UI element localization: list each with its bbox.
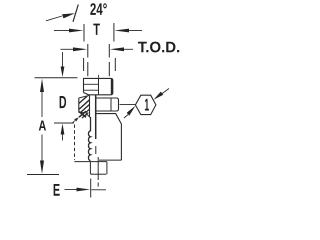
bore line hex left edge <box>95 95 97 139</box>
stem left edge <box>90 162 91 175</box>
dim E line right continuation <box>92 189 107 191</box>
label 24 deg <box>90 3 107 15</box>
dim E arrow <box>65 189 78 191</box>
balloon diagonal leader lower left <box>124 115 128 118</box>
dim D upper arrow line <box>62 52 64 67</box>
serrated sleeve edge with bumps <box>88 117 90 161</box>
centerline through stem <box>97 157 99 180</box>
dim T right extension line <box>113 23 115 42</box>
sleeve bottom edge <box>74 161 107 163</box>
dim T left extension dash lower <box>83 58 85 71</box>
bell nut right profile <box>96 114 121 161</box>
small leader arrow to ferrule <box>72 121 75 124</box>
stud outline <box>84 78 113 94</box>
dim TOD right extension line <box>108 44 110 76</box>
dim E extension line <box>90 179 92 198</box>
ferrule X detail <box>79 111 86 117</box>
label TOD <box>138 42 179 53</box>
stud thread line 2 <box>84 89 99 91</box>
balloon label 1 <box>145 99 149 111</box>
stud thread line 1 <box>84 83 99 85</box>
centerline section divider in stud <box>98 78 100 94</box>
balloon diagonal leader upper right <box>162 89 169 94</box>
dim A line lower <box>41 135 43 164</box>
hidden thread dashed line <box>74 125 76 161</box>
dim A bottom extension line <box>27 174 59 176</box>
hatch band diagonals <box>79 96 88 104</box>
cone flank tick <box>73 5 78 22</box>
label T <box>93 24 100 35</box>
band bottom edge <box>79 112 85 114</box>
label A <box>39 121 46 131</box>
label D <box>60 96 66 108</box>
ferrule coil circle <box>83 112 86 115</box>
centerline dash below stem <box>97 183 99 187</box>
hatched band left of hex <box>78 98 80 113</box>
dim T right extension dash lower <box>114 58 116 71</box>
leader arrow to cone flank <box>46 16 62 21</box>
dim D lower extension line <box>54 122 74 124</box>
stud right edge emphasis <box>111 79 113 94</box>
balloon hexagon <box>135 95 156 114</box>
stem right edge <box>106 162 108 175</box>
dim TOD left arrow <box>61 48 75 50</box>
hex nut outline <box>95 98 118 111</box>
dim D lower arrow line <box>62 133 64 141</box>
band right edge <box>89 96 91 118</box>
dim T left arrow <box>54 30 70 32</box>
dim A line upper <box>41 89 43 117</box>
centerline dash in bell <box>95 146 97 154</box>
hex facet line <box>110 98 112 111</box>
dim T right arrow <box>128 30 142 32</box>
top extension line shared A and D <box>35 77 78 79</box>
stem bottom face <box>91 173 106 175</box>
centerline top tick <box>98 75 100 78</box>
label E <box>54 184 60 196</box>
dim TOD right arrow <box>123 48 133 50</box>
band top edge <box>79 95 90 98</box>
bell bottom outer <box>99 159 121 161</box>
balloon leader to hex <box>120 104 136 106</box>
dim T left extension line <box>83 24 85 42</box>
dim TOD left extension line <box>87 44 89 76</box>
